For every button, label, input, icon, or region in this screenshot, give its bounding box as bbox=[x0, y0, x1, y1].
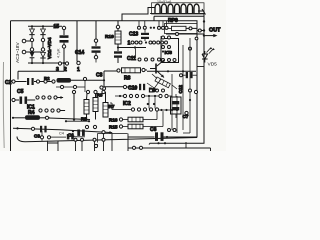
stub circles above bottom border bbox=[40, 136, 43, 139]
junction bbox=[153, 103, 155, 105]
junction bbox=[167, 70, 169, 72]
capacitor C10 bbox=[104, 84, 145, 92]
wire vertical x161 bbox=[160, 36, 162, 59]
svg-text:VD1~VD4: VD1~VD4 bbox=[47, 37, 53, 59]
node circle bbox=[85, 125, 88, 128]
svg-text:R10: R10 bbox=[105, 34, 114, 40]
node circle bbox=[168, 129, 171, 132]
capacitor C3 row wire bbox=[13, 128, 112, 132]
capacitor C9 (small, right) bbox=[180, 72, 197, 78]
node circle bbox=[73, 85, 76, 88]
junction bbox=[42, 25, 44, 27]
node circle bbox=[94, 144, 97, 147]
node circle bbox=[83, 77, 86, 80]
bottom exit wires left bbox=[48, 141, 59, 151]
inductor L (top right loops) bbox=[155, 4, 199, 13]
svg-text:R8: R8 bbox=[124, 76, 131, 82]
node circle bbox=[102, 87, 105, 90]
wire terminal2 to bridge bbox=[26, 51, 42, 53]
scan edge artifact bbox=[2, 62, 5, 148]
OUT arrow bbox=[204, 35, 215, 37]
svg-text:RP9: RP9 bbox=[168, 18, 178, 24]
svg-text:C4: C4 bbox=[59, 132, 64, 136]
svg-text:R5: R5 bbox=[81, 117, 87, 122]
wire terminal1 to bridge bbox=[26, 40, 31, 42]
wire vertical x177 bbox=[176, 96, 178, 133]
pin circles right-mid rows bbox=[150, 89, 153, 92]
svg-text:C13: C13 bbox=[129, 32, 138, 38]
diode VD2 bbox=[40, 26, 45, 38]
node circle bbox=[30, 48, 33, 51]
inductor box bbox=[152, 3, 205, 14]
bottom exit wires mid bbox=[76, 141, 83, 151]
bottom right wire y148 bbox=[128, 142, 211, 151]
frame bottom border bbox=[17, 137, 197, 142]
node circle bbox=[81, 138, 84, 141]
right outer bus wire bbox=[149, 11, 204, 145]
junction bbox=[31, 62, 33, 64]
diode VD1 bbox=[29, 26, 34, 38]
resistor R6 bbox=[93, 90, 103, 119]
node circle bbox=[139, 146, 142, 149]
wire IC2 pin drops bbox=[149, 97, 163, 126]
node circle bbox=[173, 129, 176, 132]
svg-text:VD5: VD5 bbox=[208, 62, 218, 68]
wire upper L bbox=[66, 120, 89, 122]
wire x85 vertical bbox=[84, 81, 86, 92]
wire vertical x104 bbox=[103, 71, 105, 92]
node circle bbox=[102, 131, 105, 134]
capacitor C6 bbox=[128, 127, 198, 141]
resistor R16 bbox=[109, 117, 157, 122]
node circle bbox=[100, 86, 103, 89]
IC3 box bbox=[161, 36, 179, 63]
capacitor C1 bbox=[77, 130, 80, 136]
wire left y71 bbox=[18, 63, 64, 80]
node circle bbox=[176, 33, 179, 36]
svg-text:IC2: IC2 bbox=[123, 101, 131, 107]
svg-text:C14: C14 bbox=[75, 50, 84, 56]
svg-text:R4: R4 bbox=[28, 110, 35, 116]
node circle bbox=[44, 80, 47, 83]
pin circles row y59 bbox=[138, 58, 141, 61]
wire y119 to resistor bank bbox=[49, 118, 90, 120]
svg-text:C11: C11 bbox=[127, 56, 136, 62]
capacitor C5 bbox=[12, 89, 35, 104]
AC terminal 2 bbox=[22, 50, 26, 54]
wire top-right horizontal bbox=[154, 16, 204, 21]
svg-text:C6: C6 bbox=[150, 127, 157, 133]
junction bbox=[16, 127, 18, 129]
node circle bbox=[41, 48, 44, 51]
wire vertical x128 bbox=[127, 134, 129, 152]
potentiometer RP9 bbox=[165, 18, 198, 34]
resistor R8 bbox=[104, 68, 147, 82]
node circle bbox=[102, 138, 105, 141]
junction bbox=[103, 79, 105, 81]
capacitor C11 bbox=[114, 48, 136, 64]
wire x74 bbox=[72, 90, 75, 120]
node circle bbox=[132, 146, 135, 149]
frame border bbox=[11, 21, 198, 151]
node circle bbox=[77, 61, 80, 64]
wire vertical x112 bbox=[111, 133, 113, 151]
svg-text:1: 1 bbox=[128, 41, 131, 47]
svg-text:R16: R16 bbox=[109, 118, 118, 123]
node circle bbox=[52, 80, 55, 83]
node circle bbox=[93, 138, 96, 141]
junction bbox=[60, 96, 62, 98]
wire mid-left vertical bbox=[76, 21, 78, 62]
junction bbox=[147, 103, 149, 105]
diode VD4 bbox=[40, 51, 45, 63]
wire bbox=[32, 42, 43, 48]
node circle bbox=[41, 38, 44, 41]
node circle on frame right bbox=[194, 90, 197, 93]
svg-text:C2: C2 bbox=[5, 80, 12, 86]
wire bbox=[60, 110, 65, 112]
pin circle bbox=[58, 62, 61, 65]
junction bbox=[176, 109, 178, 111]
IC2 pins bottom row bbox=[131, 108, 134, 111]
node circle bbox=[60, 85, 63, 88]
node circle bbox=[93, 125, 96, 128]
node circle bbox=[36, 80, 39, 83]
junction bbox=[164, 142, 166, 144]
junction bbox=[65, 120, 67, 122]
svg-text:2: 2 bbox=[64, 67, 67, 73]
node circle bbox=[30, 38, 33, 41]
AC terminal 1 bbox=[22, 39, 26, 43]
wire vertical x172 bbox=[171, 74, 173, 130]
junction bbox=[109, 131, 111, 133]
wires misc right-mid bbox=[147, 79, 161, 90]
right area vertical x183 bbox=[182, 45, 184, 130]
bridge top rail bbox=[28, 25, 62, 27]
junction top bus bbox=[203, 20, 205, 22]
resistor R9 (diagonal) bbox=[149, 74, 177, 94]
junction bbox=[31, 25, 33, 27]
junction bbox=[42, 62, 44, 64]
wire corner bottom center bbox=[96, 134, 128, 145]
capacitor C15 bbox=[54, 24, 69, 63]
node circle on x190 bbox=[189, 47, 192, 50]
svg-text:OUT: OUT bbox=[209, 28, 221, 34]
wire RP9 to OUT node bbox=[197, 30, 205, 32]
svg-text:3: 3 bbox=[56, 67, 59, 73]
svg-text:C8: C8 bbox=[96, 73, 103, 79]
wire x135 drop bbox=[135, 49, 137, 58]
capacitor C13 cluster bbox=[128, 21, 169, 47]
svg-text:4.7μK: 4.7μK bbox=[57, 48, 61, 58]
wire bbox=[118, 47, 146, 49]
junction bbox=[63, 62, 65, 64]
junction bbox=[72, 130, 74, 132]
IC2 pins top row bbox=[119, 95, 121, 97]
junction bbox=[134, 46, 136, 48]
svg-text:10×51×6: 10×51×6 bbox=[157, 0, 171, 4]
resistor R15 bbox=[109, 124, 163, 129]
resistor R5 bbox=[81, 90, 90, 121]
wire below RP9 bbox=[166, 33, 204, 35]
wire y87 bbox=[56, 86, 85, 88]
wire bbox=[40, 81, 52, 83]
wire inductor to right bus bbox=[198, 10, 204, 12]
svg-text:R15: R15 bbox=[109, 125, 118, 130]
inductor baseline wire bbox=[150, 12, 204, 14]
capacitor C3 bbox=[34, 126, 47, 139]
inductor lead bbox=[202, 9, 206, 15]
node circle bbox=[198, 29, 201, 32]
junction OUT node bbox=[203, 29, 205, 31]
LED VD5 bbox=[197, 47, 217, 68]
bottom exit wires mid2 bbox=[95, 134, 104, 151]
resistor R7 bbox=[102, 90, 115, 117]
capacitor C7 bbox=[171, 94, 189, 119]
resistor R10 bbox=[105, 21, 121, 47]
wire R3 to node bbox=[71, 79, 104, 81]
IC1 pin circles top row bbox=[36, 96, 39, 99]
wire from frame top to inductor bbox=[122, 8, 155, 21]
right area vertical x190 bbox=[183, 38, 190, 133]
svg-text:1: 1 bbox=[77, 67, 80, 73]
wire segments row y96 bbox=[115, 95, 172, 97]
svg-text:C3: C3 bbox=[34, 134, 40, 139]
svg-text:C12: C12 bbox=[178, 85, 183, 94]
IC1 pin circles bottom row bbox=[39, 109, 42, 112]
bridge bottom rail bbox=[28, 62, 64, 64]
transistor V1 bbox=[150, 60, 164, 78]
junction bbox=[182, 70, 184, 72]
junction bbox=[203, 34, 205, 36]
wire bbox=[57, 97, 63, 99]
junction bbox=[117, 46, 119, 48]
junction bbox=[189, 99, 191, 101]
node circle bbox=[31, 127, 34, 130]
junction bbox=[88, 120, 90, 122]
wire into IC2 bbox=[110, 103, 131, 110]
capacitor C2 bbox=[5, 78, 36, 86]
node circle bbox=[74, 138, 77, 141]
svg-text:C5: C5 bbox=[17, 89, 24, 95]
resistor R4 (dark pill) bbox=[12, 110, 50, 120]
capacitor C14 bbox=[75, 21, 101, 63]
node circle bbox=[185, 111, 188, 114]
svg-text:C10: C10 bbox=[128, 86, 137, 92]
resistor R3 (dark pill) bbox=[57, 78, 72, 83]
junction bbox=[171, 109, 173, 111]
node circle bbox=[195, 37, 198, 40]
svg-text:15: 15 bbox=[54, 24, 60, 30]
junction bbox=[157, 142, 159, 144]
svg-text:AC3~18V: AC3~18V bbox=[15, 42, 21, 63]
wire mid y71 bbox=[147, 70, 196, 72]
wire to C4 bbox=[51, 136, 66, 138]
diode VD3 bbox=[30, 51, 35, 63]
pin circle bbox=[65, 62, 68, 65]
